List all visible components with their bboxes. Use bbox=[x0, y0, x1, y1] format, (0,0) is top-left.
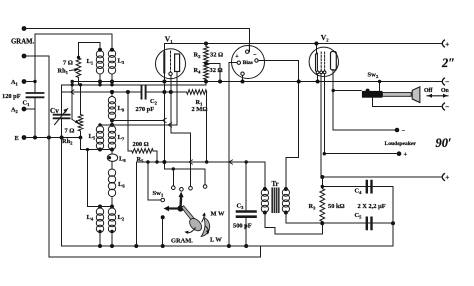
svg-text:−: − bbox=[445, 103, 449, 111]
Sw1 lever knob bbox=[182, 206, 195, 222]
svg-text:Loudspeaker: Loudspeaker bbox=[385, 141, 417, 147]
V2 grids dashed bbox=[320, 52, 322, 71]
terminal E bbox=[22, 135, 27, 140]
svg-text:7 Ω: 7 Ω bbox=[63, 60, 73, 67]
V1 anode top lead to HT rail bbox=[163, 44, 165, 53]
wire V1 grid to band switch bbox=[171, 132, 191, 134]
wire tap line h1 to switch column bbox=[112, 119, 164, 121]
terminal gramophone bottom bbox=[22, 54, 27, 59]
wire left vertical to bottom bus 2 bbox=[48, 56, 50, 257]
wire R2 R4 tap to filament bus bbox=[206, 64, 220, 82]
Sw2 body bbox=[362, 91, 383, 98]
capacitor C2 270 pF bbox=[142, 87, 146, 99]
coil L7 bbox=[108, 126, 115, 133]
MW position arrow bbox=[202, 215, 205, 222]
coil L2 bbox=[108, 208, 115, 215]
terminal A1 bbox=[22, 79, 27, 84]
wire Cv top to filament return line bbox=[61, 85, 63, 115]
resistor R2 32 ohm bbox=[205, 44, 207, 47]
V1 filament bbox=[163, 53, 165, 73]
coil L9 bbox=[111, 92, 113, 97]
wire Tr secondary bottom to C5 line bbox=[286, 213, 393, 224]
V2 filament lead bbox=[317, 74, 319, 82]
wire A2 stub bbox=[24, 108, 35, 110]
svg-text:+: + bbox=[445, 41, 449, 49]
terminal gramophone top bbox=[22, 26, 27, 31]
wire switch column from filament bus bbox=[163, 82, 165, 169]
Tr primary coil bbox=[261, 189, 268, 196]
capacitor C1 120pF bbox=[27, 93, 44, 97]
wire +90 rail bbox=[321, 176, 441, 178]
Tr secondary coil bbox=[282, 189, 289, 196]
svg-text:Off: Off bbox=[424, 88, 432, 94]
wire antenna column vertical bbox=[34, 34, 36, 93]
terminal +2V chevron bbox=[442, 40, 444, 47]
svg-text:90′: 90′ bbox=[436, 136, 452, 150]
svg-text:32 Ω: 32 Ω bbox=[210, 67, 223, 74]
Sw2 feed stub bbox=[379, 82, 381, 92]
terminal -2V chevron (filament bus end) bbox=[442, 78, 444, 85]
V1 anode lead down bbox=[176, 72, 178, 125]
bias right wire to V2 / Tr column bbox=[258, 61, 299, 158]
wire +2V rail bbox=[164, 43, 441, 45]
wire R1 right down to switch line bbox=[206, 92, 208, 162]
Sw2 knob bbox=[412, 87, 420, 103]
capacitor C3 500 pF bbox=[245, 162, 247, 211]
svg-text:Tr: Tr bbox=[272, 181, 279, 188]
svg-text:On: On bbox=[441, 88, 450, 94]
wire L1 bottom to filament lines bbox=[99, 74, 101, 85]
bias right contact - bbox=[255, 59, 258, 62]
Sw2 bottom lead to -terminal bbox=[373, 98, 441, 107]
Tr core bbox=[271, 188, 279, 214]
V1 anode plate bbox=[175, 54, 180, 72]
svg-text:−: − bbox=[445, 78, 449, 86]
crossing hop bbox=[70, 90, 74, 94]
wire anode to Sw2 bbox=[333, 90, 361, 92]
bias bottom contact bbox=[241, 72, 244, 75]
resistor R3 50k bbox=[321, 177, 323, 189]
svg-text:GRAM.: GRAM. bbox=[171, 238, 193, 245]
wire L3 bottom to filament lines bbox=[111, 74, 113, 85]
svg-text:7 Ω: 7 Ω bbox=[65, 128, 75, 135]
svg-text:500 pF: 500 pF bbox=[233, 223, 252, 230]
V2 top lead bbox=[315, 44, 317, 54]
svg-text:270 pF: 270 pF bbox=[136, 106, 155, 113]
bias left contact + bbox=[237, 61, 240, 64]
wire Tr primary bottom to R3 bottom bbox=[265, 213, 322, 235]
svg-text:2 X 2,2 μF: 2 X 2,2 μF bbox=[358, 203, 386, 210]
wire tap line h2 to V1 anode bbox=[100, 124, 177, 126]
wire filament return line bbox=[62, 84, 206, 86]
Sw1 arm left arrow bbox=[168, 207, 178, 209]
bias top contact bbox=[248, 44, 250, 52]
svg-text:L W: L W bbox=[210, 237, 222, 244]
wire L7 bottom through L8 to L6 bbox=[111, 150, 113, 170]
wire to Tr primary top bbox=[229, 162, 265, 189]
coil L5 bbox=[96, 126, 103, 133]
svg-text:−: − bbox=[402, 128, 406, 135]
wire V2 grid column bbox=[228, 63, 230, 247]
wire C4/C5 right edge bbox=[392, 187, 394, 247]
wire A1 stub bbox=[24, 81, 35, 83]
wire L5 bottom bypass to L4 top bbox=[88, 150, 101, 207]
coil L1 bbox=[96, 51, 103, 58]
V2 anode plate bbox=[331, 52, 337, 71]
bias left wire to switch column bbox=[229, 62, 237, 64]
wire C4 branch bbox=[322, 186, 393, 188]
Sw1 arm up arrow bbox=[179, 197, 182, 207]
wire Rh1 top to coil L1 top bbox=[79, 43, 101, 50]
wire C1 to A2 bbox=[34, 97, 36, 137]
V2 grid lead to speaker plus bbox=[323, 74, 325, 154]
Rh2 wiper arrow bbox=[72, 120, 76, 122]
wire lower-left contact drop bbox=[162, 217, 164, 246]
V2 anode lead bbox=[332, 70, 334, 131]
svg-text:Bias: Bias bbox=[243, 60, 254, 66]
wire contact feeder bbox=[164, 168, 205, 170]
wire grid line with C2 gap bbox=[62, 91, 187, 93]
V1 grid lead bbox=[170, 76, 172, 133]
capacitor C5 bbox=[367, 218, 372, 229]
wire long switch line bbox=[136, 161, 229, 163]
Sw1 hub bbox=[177, 205, 183, 211]
wire top rail from gram terminal to bias bbox=[24, 29, 249, 52]
wire Cv vertical / bottom bus 1 bbox=[62, 118, 393, 246]
resistor R4 32 ohm bbox=[204, 64, 209, 80]
wire bottom bus 1 dots bbox=[134, 244, 138, 248]
V1 filament lead to bus bbox=[163, 73, 165, 82]
wire speaker plus bbox=[324, 153, 399, 155]
wire L9 bottom to L5 L7 tops bbox=[111, 120, 113, 126]
V1 grid dashed bbox=[170, 51, 172, 72]
capacitor C4 bbox=[367, 181, 372, 192]
wire earth line bbox=[24, 137, 81, 139]
wire filament bus bbox=[72, 81, 441, 83]
wire bottom bus 2 bbox=[49, 246, 261, 257]
svg-text:E: E bbox=[15, 135, 19, 142]
terminal - chevron (switch) bbox=[442, 103, 444, 110]
svg-text:120 pF: 120 pF bbox=[2, 93, 21, 100]
wire to coil L3 top bbox=[35, 34, 112, 50]
resistor R5 200 ohm bbox=[128, 92, 132, 151]
svg-text:2 MΩ: 2 MΩ bbox=[192, 106, 208, 113]
Sw2 shaft bbox=[382, 93, 411, 97]
svg-text:2″: 2″ bbox=[441, 56, 455, 70]
svg-text:−: − bbox=[253, 53, 257, 59]
wire switch line left drop to bus bbox=[135, 162, 137, 246]
wire E line down to coil bottoms bbox=[81, 138, 113, 150]
wire gram bottom stub bbox=[24, 55, 49, 57]
wire speaker minus bbox=[333, 129, 397, 131]
V2 screen lead to +90 rail bbox=[320, 74, 322, 177]
resistor R1 2 Mohm bbox=[187, 90, 207, 95]
coil L3 bbox=[108, 50, 115, 57]
svg-text:+: + bbox=[445, 174, 449, 182]
coil L6 bbox=[108, 169, 115, 176]
wire R5 right to switch line bbox=[153, 151, 157, 162]
V2 filament hairpin bbox=[316, 53, 318, 71]
terminal A2 bbox=[22, 107, 27, 112]
svg-text:50 kΩ: 50 kΩ bbox=[328, 203, 345, 210]
svg-text:M W: M W bbox=[211, 211, 226, 218]
svg-text:32 Ω: 32 Ω bbox=[210, 52, 223, 59]
svg-text:200 Ω: 200 Ω bbox=[133, 141, 149, 148]
bias unit bbox=[232, 46, 265, 79]
svg-text:+: + bbox=[235, 54, 239, 60]
svg-text:+: + bbox=[404, 151, 408, 158]
wire L4 top link bbox=[100, 207, 112, 209]
wire left contact feed bbox=[148, 162, 161, 200]
wire Tr secondary top to bias column bbox=[286, 157, 299, 189]
svg-text:GRAM.: GRAM. bbox=[11, 39, 35, 46]
wire coil bottoms to bottom bus bbox=[100, 233, 112, 247]
coil L8 single turn bbox=[107, 154, 117, 161]
coil L4 bbox=[96, 208, 103, 215]
